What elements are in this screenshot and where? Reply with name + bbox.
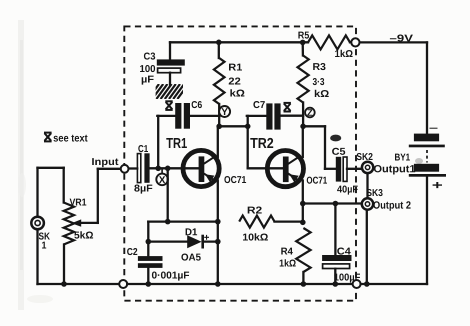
node junction R4 bottom — [301, 281, 307, 287]
wire input terminal to wiper drop — [98, 168, 121, 170]
potentiometer VR1 track — [64, 203, 74, 245]
wire TR2 emitter down — [302, 181, 304, 224]
node junction R1 top — [216, 40, 222, 46]
node junction TR1 emitter bottom — [215, 281, 221, 287]
label C2 value — [152, 272, 189, 281]
wire battery to bottom rail — [426, 177, 428, 284]
capacitor C4 — [322, 255, 351, 261]
node junction R3/R5 — [300, 40, 306, 46]
wire C2 top stem — [147, 242, 149, 257]
label D1 type OA5 — [181, 254, 200, 261]
node junction C7/TR2 base — [245, 124, 251, 130]
label C6 — [192, 101, 202, 108]
node junction C2 bottom — [146, 281, 152, 287]
wire TR2 base lead — [248, 167, 284, 169]
terminal bottom-left on box edge — [119, 280, 127, 288]
node Y test point — [219, 106, 230, 117]
node junction emitter-drop — [165, 166, 171, 172]
capacitor C5 — [336, 157, 341, 182]
scan fold line at left margin — [18, 20, 24, 310]
terminal on box edge at R5 — [351, 38, 359, 46]
wire C5 left lead — [325, 168, 336, 170]
capacitor C6 — [175, 103, 181, 129]
label SK 1 — [42, 242, 46, 249]
capacitor C1 — [137, 154, 140, 183]
label SK — [39, 233, 50, 240]
wire top rail right — [350, 41, 427, 43]
wire D1 anode lead — [148, 240, 187, 242]
wire TR2 base drop — [247, 126, 249, 168]
wire SK2 to SK3 link — [366, 174, 368, 198]
capacitor C2 — [138, 256, 163, 261]
wire emitter-drop vertical — [167, 168, 169, 221]
label TR2 — [250, 138, 273, 148]
label R2 value 10kohm — [243, 233, 268, 240]
label VR1 — [70, 199, 87, 206]
label BY1 — [395, 154, 410, 161]
label R1 — [229, 64, 242, 71]
wire C5 corner drop — [324, 126, 326, 169]
label C1 — [138, 145, 148, 152]
dashed enclosure box — [124, 26, 356, 300]
label Output1 — [374, 165, 415, 175]
wire SK1 down to rail — [36, 230, 38, 284]
wire Y junction to C7/TR2 junction — [219, 125, 248, 127]
wire VR1 bottom stem — [63, 245, 65, 285]
label battery minus — [430, 128, 438, 129]
battery BY1 cell1 negative plate — [414, 134, 439, 142]
wire C7 left lead — [247, 115, 267, 117]
battery BY1 cell2 negative plate — [414, 164, 439, 172]
wire C4 top stem — [334, 204, 336, 256]
node junction D1 right on emitter line — [215, 239, 221, 245]
resistor R5 — [308, 35, 350, 49]
node junction X — [155, 166, 161, 172]
wire VR1 top stem — [63, 168, 65, 203]
node junction R2 / TR2 emitter — [300, 220, 306, 226]
node junction C4 bottom — [333, 281, 339, 287]
label C4 — [337, 248, 351, 255]
resistor R2 — [239, 216, 274, 228]
node Z test point — [305, 108, 315, 118]
label R5 — [298, 32, 309, 39]
label C3 — [144, 53, 155, 60]
transistor TR2 body — [267, 151, 303, 187]
wire R3 top stem — [302, 42, 304, 55]
wire input terminal to C1 — [129, 167, 137, 169]
label C4 value 100uF — [334, 274, 360, 283]
label TR2 type OC71 — [307, 177, 327, 184]
label battery plus — [433, 182, 442, 188]
label R3 value kohm — [315, 90, 329, 97]
resistor R3 — [298, 56, 309, 103]
label Output2 — [373, 201, 410, 211]
wire C1 to TR1 base — [150, 167, 200, 169]
wire C6 left lead — [157, 115, 175, 117]
socket SK3 — [362, 198, 373, 209]
label R4 value 1kohm — [280, 259, 296, 266]
node junction emitter / SK3 wire — [300, 201, 306, 207]
label -9V supply — [390, 35, 413, 42]
wire TR1 collector — [217, 126, 219, 157]
wire C3 bottom stem — [169, 73, 171, 85]
label C3 value uF — [142, 76, 154, 85]
wire R2 right lead — [275, 220, 303, 222]
node junction lower link — [165, 219, 171, 225]
grey smudge near BY1 — [415, 158, 423, 164]
wire TR2 collector — [302, 126, 304, 157]
asterisk marker at C7 — [284, 102, 291, 104]
wire C7 right lead — [281, 115, 304, 117]
label SK3 — [367, 189, 383, 196]
label C2 — [127, 248, 137, 255]
label R5 value 1kohm — [335, 50, 353, 57]
wire C2 bottom stem — [147, 268, 149, 284]
label R2 — [248, 207, 262, 214]
socket SK2 — [362, 162, 373, 173]
transistor TR1 body — [183, 150, 219, 186]
wire R4 bottom stem — [302, 272, 304, 284]
label see-text asterisk — [44, 132, 52, 134]
label R3 value 3.3 — [313, 78, 325, 85]
wire lower link corner down — [147, 222, 149, 242]
resistor R1 — [214, 58, 225, 104]
wire emitter to SK3 — [303, 202, 362, 204]
wire TR1 emitter down — [217, 181, 219, 285]
potentiometer VR1 wiper arrow — [72, 219, 82, 226]
node junction SK3 bottom — [364, 281, 370, 287]
label see text — [54, 135, 88, 142]
resistor R4 — [296, 228, 310, 272]
label VR1 value 5kohm — [74, 231, 93, 238]
wire bottom rail right — [361, 283, 427, 285]
battery BY1 cell2 positive plate — [409, 174, 446, 177]
node junction D1 left — [146, 239, 152, 245]
capacitor C3 — [157, 59, 185, 65]
wire C6 riser — [157, 116, 159, 168]
wire R1 top stem — [218, 42, 220, 58]
node junction C4 top — [333, 201, 339, 207]
label TR1 — [166, 138, 187, 148]
label C3 value 100 — [140, 65, 155, 72]
label Input — [92, 158, 118, 167]
wire C6 right lead — [190, 115, 219, 117]
label R4 — [281, 248, 293, 255]
asterisk marker at C6 — [165, 100, 172, 102]
terminal Input on box edge — [121, 165, 129, 173]
capacitor C7 — [266, 103, 272, 129]
wire top rail left — [170, 41, 308, 43]
wire wiper drop vertical — [97, 169, 99, 223]
wire SK1 to VR1 top link — [38, 167, 64, 169]
terminal bottom-right on box edge — [353, 280, 361, 288]
wire C3 top stem — [169, 42, 171, 59]
label D1 polarity + — [204, 235, 209, 240]
battery BY1 dotted continuation — [426, 150, 428, 163]
wire R3 bottom to Z junction — [302, 103, 304, 127]
wire wiper horizontal — [79, 222, 98, 224]
wire lower link — [148, 220, 218, 222]
ink smudge above C5 — [330, 135, 341, 142]
label R3 — [313, 63, 325, 70]
wire Z junction to C5 corner — [303, 125, 325, 127]
wire bottom rail outside-left — [38, 283, 120, 285]
wire SK1 riser — [36, 168, 38, 216]
wire C4 bottom stem — [334, 269, 336, 284]
node junction Z/C5 — [300, 124, 306, 130]
socket SK1 — [31, 217, 44, 230]
node X test point — [161, 169, 163, 174]
label R1 value kohm — [230, 89, 244, 96]
label R1 value 22 — [229, 78, 241, 85]
battery BY1 cell1 positive plate — [409, 145, 445, 148]
diode D1 — [187, 235, 201, 248]
wire R1 bottom to collector junction — [218, 104, 220, 126]
node junction below Y — [216, 124, 222, 130]
wire C5 to SK2 — [347, 168, 362, 170]
label C7 — [253, 101, 264, 108]
faint speckle bottom-left — [27, 295, 53, 303]
label C1 value 8uF — [134, 185, 152, 194]
wire -9V down to battery — [426, 42, 428, 133]
node junction VR1 bottom — [61, 281, 67, 287]
wire D1 cathode lead — [204, 240, 218, 242]
label C5 value 40uF — [337, 186, 358, 195]
node junction TR1 emitter / R2 — [215, 219, 221, 225]
ground chassis hatch under C3 — [148, 84, 188, 99]
label D1 — [186, 228, 198, 235]
wire C7 riser — [247, 116, 249, 126]
wire bottom rail inside — [127, 283, 352, 285]
wire SK3 down to rail — [366, 210, 368, 284]
label SK2 — [357, 153, 373, 160]
label C5 — [332, 148, 345, 155]
label TR1 type OC71 — [224, 176, 246, 183]
